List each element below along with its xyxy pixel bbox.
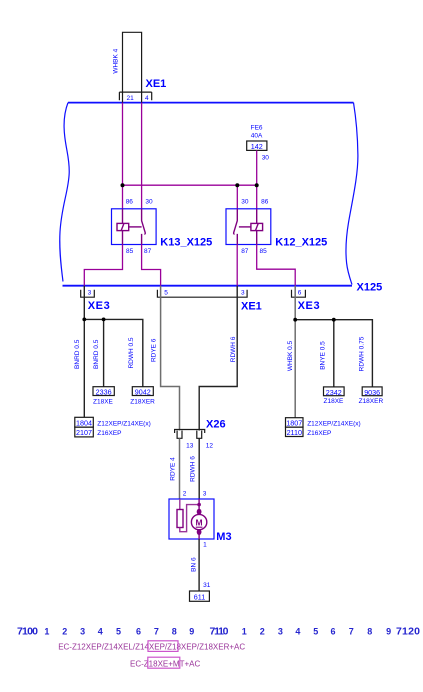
svg-text:BNYE 0.5: BNYE 0.5 bbox=[320, 341, 327, 370]
svg-text:Z18XE: Z18XE bbox=[324, 398, 345, 405]
svg-text:611: 611 bbox=[194, 592, 205, 601]
svg-text:6: 6 bbox=[298, 290, 302, 297]
svg-text:RDYE 4: RDYE 4 bbox=[170, 457, 177, 481]
svg-text:1: 1 bbox=[242, 627, 247, 637]
svg-text:2107: 2107 bbox=[76, 428, 92, 437]
svg-text:6: 6 bbox=[330, 627, 335, 637]
svg-text:2: 2 bbox=[62, 627, 67, 637]
svg-text:EC-Z12XEP/Z14XEL/Z14XEP/Z18XEP: EC-Z12XEP/Z14XEL/Z14XEP/Z18XEP/Z18XER+AC bbox=[58, 643, 245, 652]
svg-text:1: 1 bbox=[44, 627, 49, 637]
svg-text:85: 85 bbox=[126, 248, 134, 255]
svg-text:RDWH 0.5: RDWH 0.5 bbox=[128, 337, 135, 368]
svg-text:RDYE 6: RDYE 6 bbox=[150, 338, 157, 362]
svg-text:85: 85 bbox=[260, 248, 268, 255]
svg-text:2: 2 bbox=[183, 491, 187, 498]
svg-text:2: 2 bbox=[260, 627, 265, 637]
svg-text:4: 4 bbox=[295, 627, 300, 637]
svg-text:BNRD 0.5: BNRD 0.5 bbox=[93, 339, 100, 369]
svg-text:87: 87 bbox=[144, 248, 152, 255]
svg-text:2110: 2110 bbox=[287, 428, 302, 437]
svg-text:Z16XEP: Z16XEP bbox=[97, 430, 121, 437]
svg-text:4: 4 bbox=[98, 627, 103, 637]
svg-text:Z12XEP/Z14XE(x): Z12XEP/Z14XE(x) bbox=[97, 420, 150, 427]
svg-text:3: 3 bbox=[80, 627, 85, 637]
svg-text:7100: 7100 bbox=[17, 626, 38, 638]
svg-text:Z18XER: Z18XER bbox=[359, 398, 384, 405]
svg-text:BN 6: BN 6 bbox=[190, 557, 197, 572]
svg-text:RDWH 0.75: RDWH 0.75 bbox=[359, 336, 366, 371]
svg-text:7110: 7110 bbox=[210, 626, 229, 638]
svg-text:WHBK 0.5: WHBK 0.5 bbox=[287, 340, 294, 371]
svg-text:7: 7 bbox=[349, 627, 354, 637]
svg-text:9042: 9042 bbox=[135, 388, 151, 397]
svg-text:2342: 2342 bbox=[326, 388, 342, 397]
svg-text:RDWH 6: RDWH 6 bbox=[230, 336, 237, 362]
svg-text:9: 9 bbox=[386, 627, 391, 637]
svg-text:142: 142 bbox=[251, 142, 263, 151]
svg-text:EC-Z18XE+MT+AC: EC-Z18XE+MT+AC bbox=[130, 659, 200, 668]
svg-text:Z12XEP/Z14XE(x): Z12XEP/Z14XE(x) bbox=[307, 420, 360, 427]
svg-text:XE1: XE1 bbox=[146, 78, 167, 90]
svg-text:XE3: XE3 bbox=[88, 300, 110, 312]
svg-text:21: 21 bbox=[127, 95, 135, 102]
svg-text:3: 3 bbox=[278, 627, 283, 637]
svg-text:8: 8 bbox=[367, 627, 372, 637]
svg-text:12: 12 bbox=[206, 443, 214, 450]
svg-text:3: 3 bbox=[203, 491, 207, 498]
svg-text:40A: 40A bbox=[251, 133, 263, 140]
svg-text:M: M bbox=[196, 517, 203, 527]
svg-text:X26: X26 bbox=[206, 419, 226, 431]
svg-text:1807: 1807 bbox=[286, 418, 302, 427]
svg-text:3: 3 bbox=[241, 290, 245, 297]
svg-text:3: 3 bbox=[88, 290, 92, 297]
svg-text:7: 7 bbox=[154, 627, 159, 637]
svg-text:30: 30 bbox=[262, 154, 270, 161]
svg-text:K13_X125: K13_X125 bbox=[160, 236, 212, 248]
svg-text:13: 13 bbox=[186, 443, 194, 450]
svg-text:9036: 9036 bbox=[364, 388, 380, 397]
svg-text:7120: 7120 bbox=[396, 626, 420, 638]
svg-text:Z18XER: Z18XER bbox=[130, 399, 155, 406]
svg-text:K12_X125: K12_X125 bbox=[275, 236, 327, 248]
svg-text:WHBK 4: WHBK 4 bbox=[113, 48, 120, 73]
svg-text:BNRD 0.5: BNRD 0.5 bbox=[74, 339, 81, 369]
svg-text:8: 8 bbox=[172, 627, 177, 637]
svg-text:4: 4 bbox=[145, 95, 149, 102]
svg-text:31: 31 bbox=[203, 582, 211, 589]
svg-text:87: 87 bbox=[241, 248, 249, 255]
svg-text:XE3: XE3 bbox=[298, 300, 320, 312]
svg-text:XE1: XE1 bbox=[241, 301, 262, 313]
svg-text:Z16XEP: Z16XEP bbox=[307, 430, 331, 437]
svg-text:Z18XE: Z18XE bbox=[93, 399, 114, 406]
svg-text:M3: M3 bbox=[216, 531, 231, 543]
svg-text:RDWH 6: RDWH 6 bbox=[189, 456, 196, 482]
svg-text:1: 1 bbox=[203, 541, 207, 548]
svg-text:2336: 2336 bbox=[96, 388, 112, 397]
svg-text:FE6: FE6 bbox=[251, 125, 263, 132]
svg-text:30: 30 bbox=[145, 199, 153, 206]
svg-text:5: 5 bbox=[164, 290, 168, 297]
svg-text:86: 86 bbox=[126, 199, 134, 206]
svg-text:6: 6 bbox=[136, 627, 141, 637]
svg-text:5: 5 bbox=[116, 627, 121, 637]
svg-text:1804: 1804 bbox=[76, 418, 92, 427]
svg-text:30: 30 bbox=[241, 199, 249, 206]
svg-text:X125: X125 bbox=[357, 282, 383, 294]
svg-text:9: 9 bbox=[189, 627, 194, 637]
svg-text:5: 5 bbox=[313, 627, 318, 637]
svg-text:86: 86 bbox=[261, 199, 269, 206]
